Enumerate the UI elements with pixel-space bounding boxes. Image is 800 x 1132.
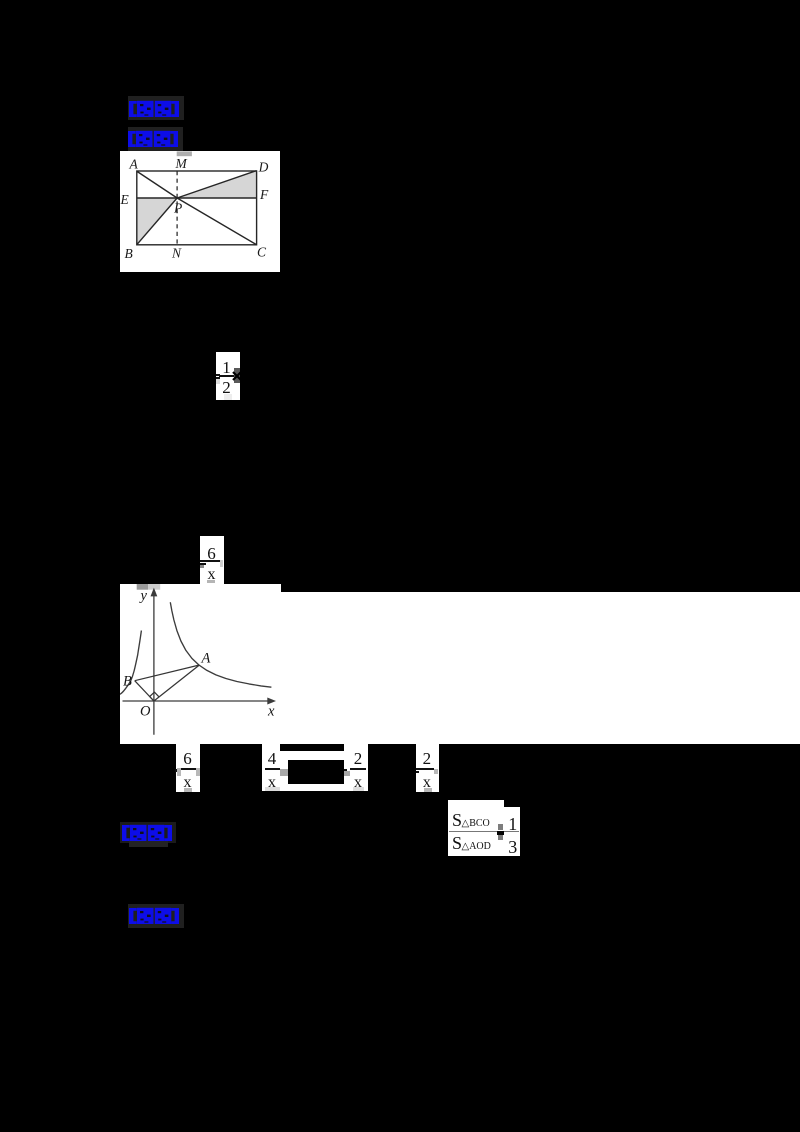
svg-text:B: B [125,246,133,261]
svg-text:y: y [138,588,147,604]
svg-text:A: A [129,157,139,172]
svg-text:C: C [257,245,267,260]
svg-text:E: E [120,192,130,207]
svg-text:O: O [140,704,151,720]
svg-text:P: P [173,201,182,216]
svg-text:A: A [200,651,210,667]
svg-text:N: N [171,246,182,261]
svg-text:x: x [267,704,275,720]
svg-text:F: F [259,187,269,202]
svg-text:D: D [258,160,269,175]
svg-text:M: M [175,156,188,171]
svg-text:B: B [123,674,132,690]
